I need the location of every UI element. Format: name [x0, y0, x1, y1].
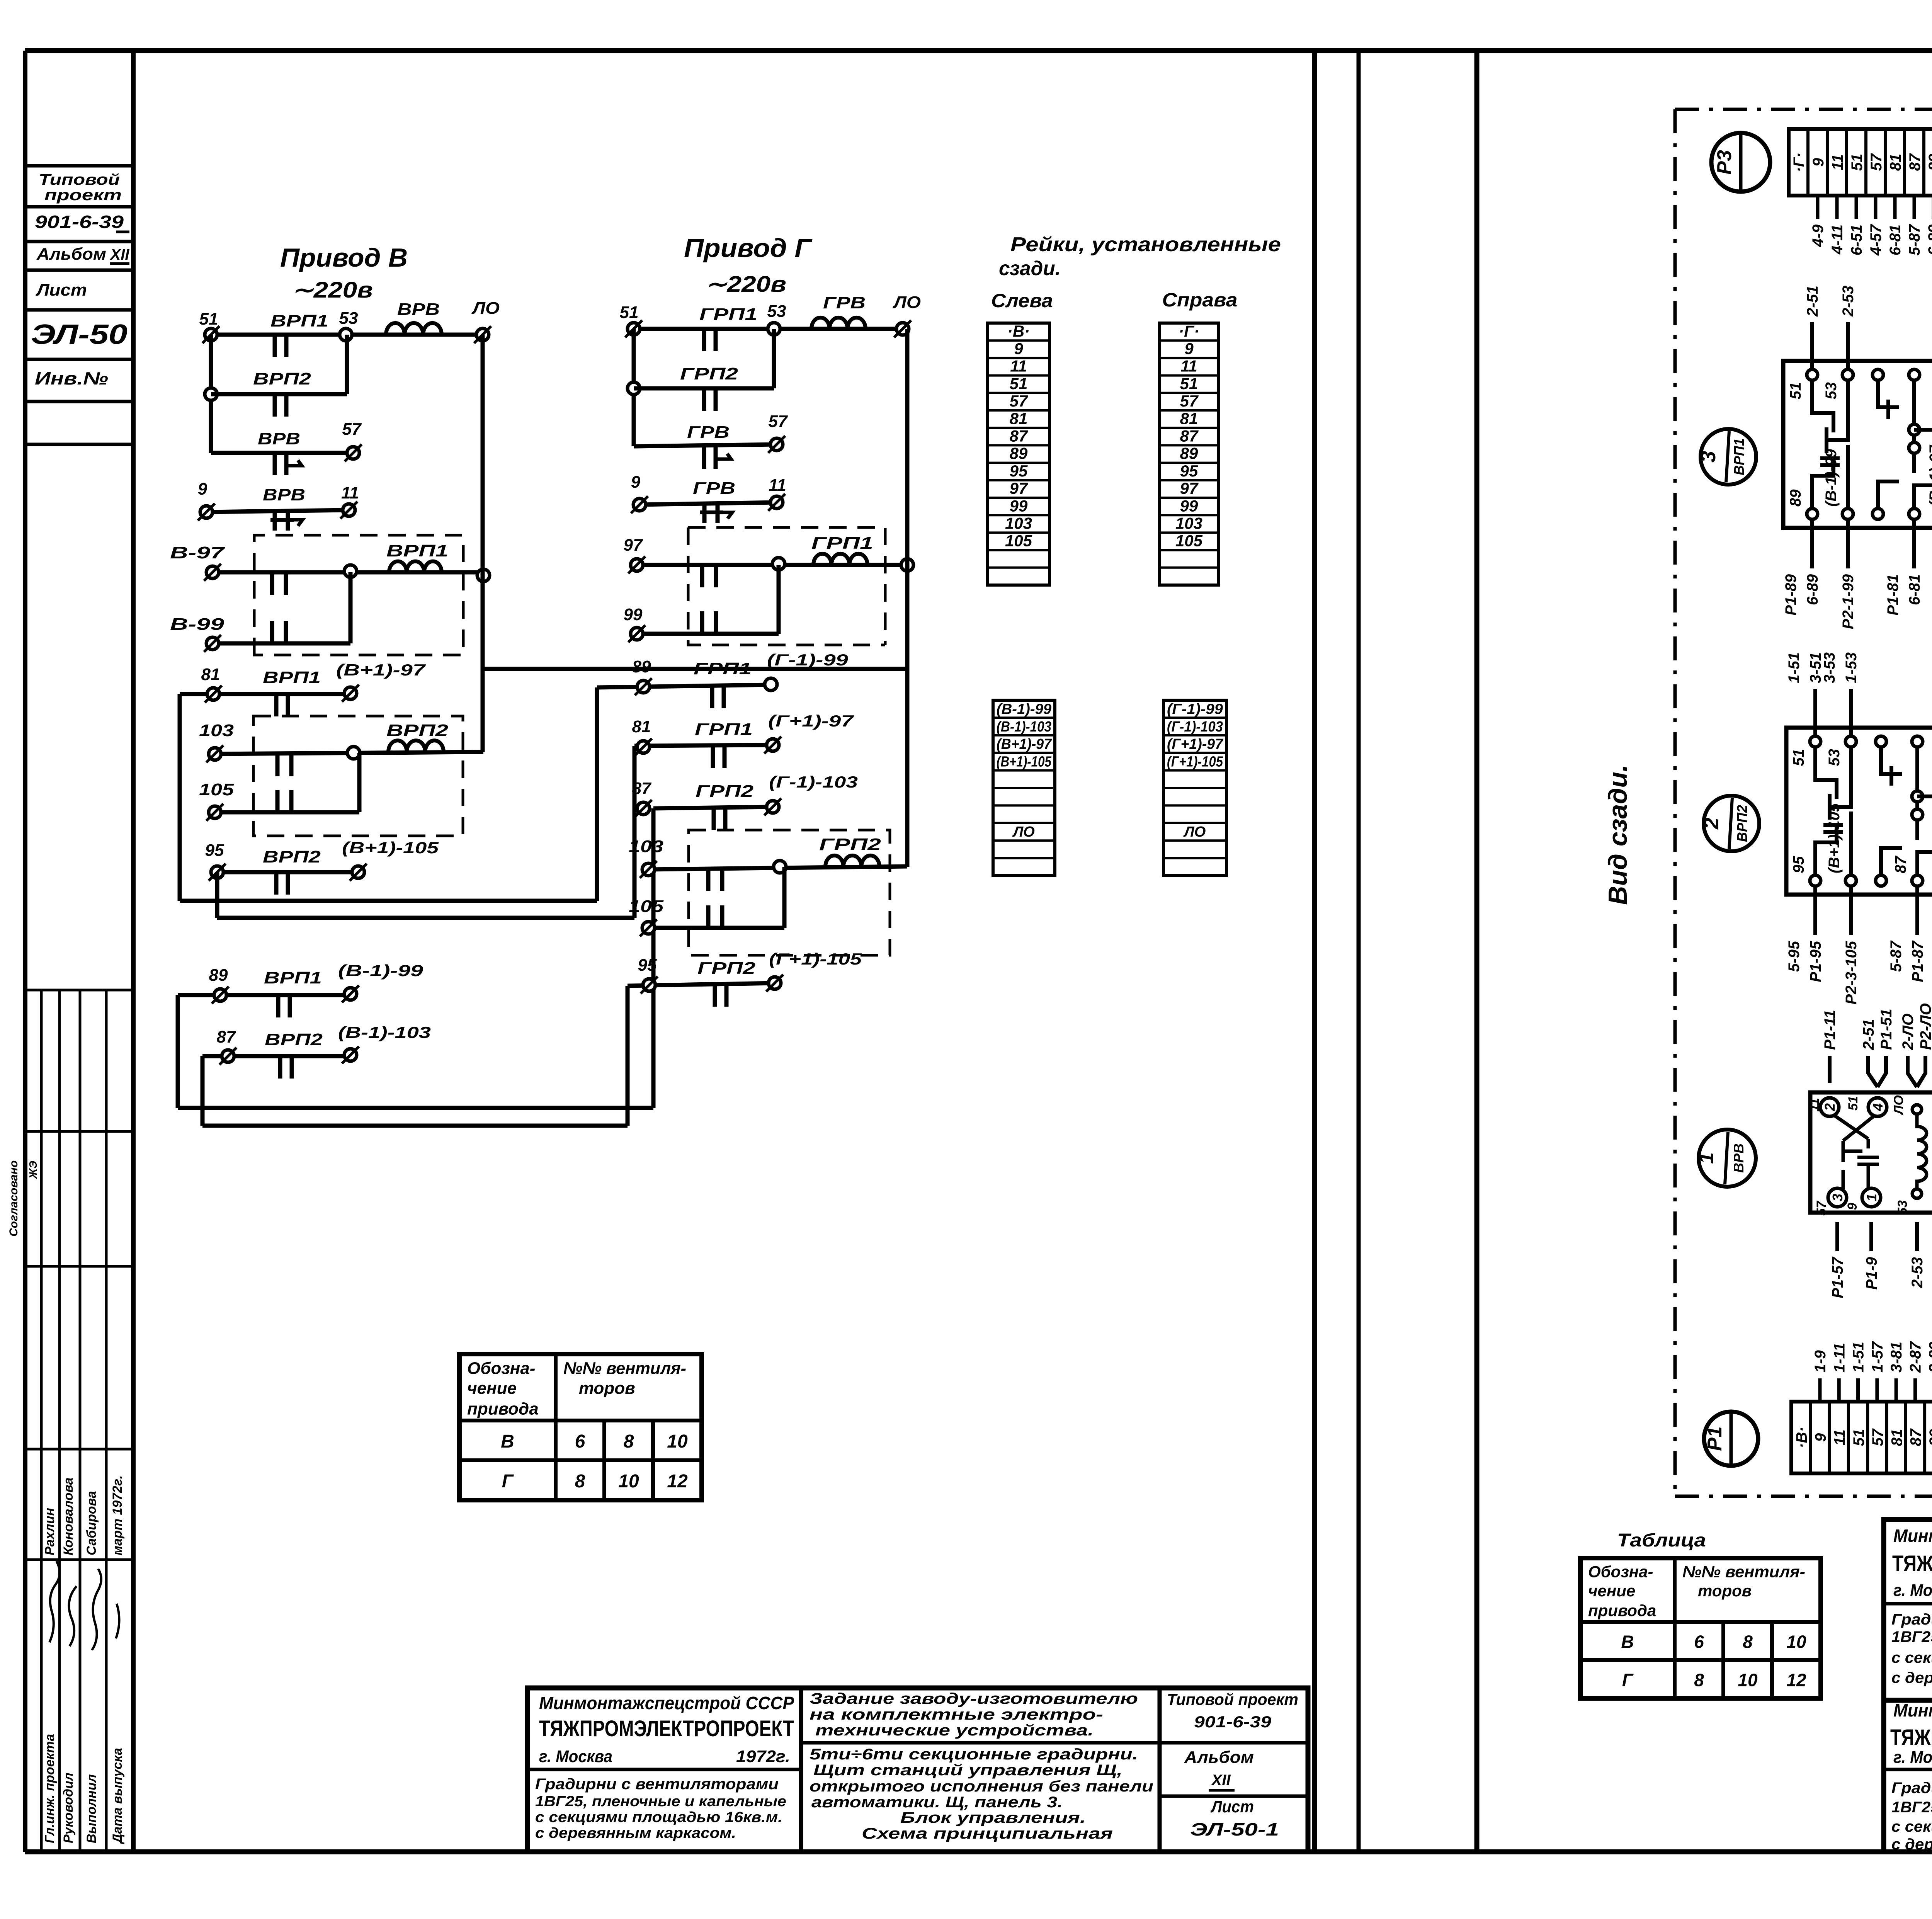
- svg-text:4-11: 4-11: [1829, 225, 1846, 255]
- svg-text:57: 57: [1869, 1428, 1886, 1446]
- svg-text:89: 89: [1010, 444, 1028, 463]
- svg-text:11: 11: [1010, 357, 1027, 375]
- svg-text:9: 9: [631, 473, 641, 492]
- svg-text:95: 95: [1790, 856, 1807, 873]
- svg-text:чение: чение: [1588, 1582, 1635, 1600]
- svg-text:1-53: 1-53: [1843, 652, 1860, 683]
- svg-text:с деревянным каркасом.: с деревянным каркасом.: [535, 1825, 736, 1841]
- svg-text:(В+1)-97: (В+1)-97: [997, 736, 1052, 752]
- svg-text:(Г-1)-99: (Г-1)-99: [1167, 701, 1223, 717]
- svg-text:89: 89: [1926, 153, 1932, 171]
- svg-text:89: 89: [1927, 1429, 1932, 1446]
- svg-text:53: 53: [1895, 1200, 1910, 1215]
- svg-text:11: 11: [769, 476, 786, 495]
- svg-text:11: 11: [341, 483, 359, 502]
- svg-text:57: 57: [1814, 1200, 1829, 1216]
- svg-text:г. Москва: г. Москва: [1893, 1748, 1932, 1767]
- svg-text:ТЯЖПРОМЭЛЕКТРОПРОЕКТ: ТЯЖПРОМЭЛЕКТРОПРОЕКТ: [1892, 1551, 1932, 1576]
- svg-text:1-51: 1-51: [1786, 652, 1803, 683]
- svg-text:105: 105: [1005, 532, 1032, 550]
- svg-text:Альбом: Альбом: [1184, 1748, 1254, 1767]
- svg-text:105: 105: [629, 897, 664, 916]
- svg-text:·Г·: ·Г·: [1179, 322, 1199, 340]
- svg-text:Привод В: Привод В: [280, 243, 408, 272]
- svg-text:Справа: Справа: [1162, 289, 1238, 311]
- svg-text:10: 10: [618, 1471, 639, 1492]
- svg-text:6-89: 6-89: [1925, 224, 1932, 255]
- svg-text:ТЯЖПРОМЭЛЕКТРОПРОЕКТ: ТЯЖПРОМЭЛЕКТРОПРОЕКТ: [539, 1716, 794, 1741]
- svg-text:Согласовано: Согласовано: [7, 1160, 20, 1237]
- svg-text:9: 9: [1184, 339, 1194, 357]
- svg-text:53: 53: [1823, 382, 1840, 400]
- svg-text:2-87: 2-87: [1907, 1341, 1924, 1373]
- svg-text:Минмонтажспецстрой СССР: Минмонтажспецстрой СССР: [1893, 1526, 1932, 1546]
- svg-text:3-89: 3-89: [1926, 1341, 1932, 1373]
- svg-text:(В-1)-103: (В-1)-103: [1930, 807, 1932, 873]
- svg-text:привода: привода: [467, 1400, 539, 1419]
- svg-text:автоматики. Щ, панель 3.: автоматики. Щ, панель 3.: [811, 1794, 1063, 1811]
- svg-text:Р1-81: Р1-81: [1884, 574, 1901, 616]
- svg-text:1ВГ25, пленочные и капельные: 1ВГ25, пленочные и капельные: [535, 1793, 786, 1810]
- svg-text:ЛО: ЛО: [1183, 824, 1206, 840]
- svg-text:81: 81: [201, 665, 220, 684]
- svg-text:ВРВ: ВРВ: [1731, 1143, 1747, 1173]
- svg-text:ГРП1: ГРП1: [694, 659, 752, 678]
- svg-text:99: 99: [1010, 497, 1028, 515]
- svg-text:Щит станций управления Щ,: Щит станций управления Щ,: [813, 1762, 1122, 1779]
- svg-text:г. Москва: г. Москва: [539, 1747, 612, 1766]
- svg-text:Р1-57: Р1-57: [1829, 1256, 1846, 1298]
- svg-text:87: 87: [1908, 1428, 1925, 1446]
- svg-text:(Г+1)-97: (Г+1)-97: [768, 712, 854, 730]
- svg-text:11: 11: [1831, 1429, 1848, 1446]
- svg-text:57: 57: [1868, 153, 1885, 171]
- svg-text:В: В: [501, 1431, 514, 1452]
- svg-text:Сабирова: Сабирова: [84, 1491, 99, 1555]
- svg-text:Р3: Р3: [1713, 150, 1736, 175]
- svg-text:6-51: 6-51: [1848, 225, 1865, 255]
- svg-text:Блок управления.: Блок управления.: [900, 1809, 1086, 1826]
- svg-text:открытого исполнения без панел: открытого исполнения без панели: [810, 1778, 1153, 1795]
- svg-text:Слева: Слева: [991, 290, 1053, 311]
- svg-text:Выполнил: Выполнил: [84, 1774, 99, 1843]
- svg-text:Обозна-: Обозна-: [467, 1359, 536, 1378]
- svg-text:57: 57: [1010, 392, 1028, 410]
- svg-text:8: 8: [1743, 1631, 1753, 1652]
- svg-text:ВРП2: ВРП2: [253, 369, 311, 388]
- svg-text:ГРП2: ГРП2: [696, 782, 754, 801]
- svg-text:97: 97: [1010, 479, 1028, 497]
- svg-text:март 1972г.: март 1972г.: [110, 1475, 125, 1555]
- svg-text:53: 53: [1826, 749, 1843, 766]
- svg-text:Дата выпуска: Дата выпуска: [110, 1748, 125, 1844]
- svg-text:ВРВ: ВРВ: [258, 429, 300, 448]
- svg-text:Гл.инж. проекта: Гл.инж. проекта: [43, 1734, 57, 1843]
- svg-text:ГРП2: ГРП2: [680, 364, 738, 383]
- svg-text:ГРП1: ГРП1: [695, 720, 753, 739]
- svg-text:103: 103: [1175, 514, 1202, 532]
- svg-text:∼220в: ∼220в: [705, 272, 786, 297]
- svg-text:1-51: 1-51: [1850, 1342, 1867, 1373]
- svg-text:Привод Г: Привод Г: [684, 233, 813, 263]
- svg-text:Г: Г: [1622, 1670, 1634, 1690]
- svg-text:Градирни с вентиляторами: Градирни с вентиляторами: [1891, 1779, 1932, 1797]
- svg-text:(В+1)-105: (В+1)-105: [342, 839, 439, 857]
- svg-text:11: 11: [1829, 154, 1846, 170]
- svg-text:3: 3: [1830, 1194, 1845, 1201]
- svg-text:(Г+1)-105: (Г+1)-105: [769, 950, 862, 968]
- svg-text:4: 4: [1870, 1103, 1886, 1111]
- svg-text:проект: проект: [44, 187, 122, 204]
- svg-text:12: 12: [667, 1471, 688, 1492]
- svg-text:Р1-11: Р1-11: [1821, 1010, 1838, 1050]
- svg-text:1972г.: 1972г.: [736, 1747, 790, 1766]
- svg-text:6: 6: [575, 1431, 585, 1452]
- svg-text:87: 87: [1180, 427, 1199, 445]
- svg-text:105: 105: [199, 780, 234, 799]
- svg-text:57: 57: [1180, 392, 1199, 410]
- svg-text:ВРП1: ВРП1: [1731, 438, 1747, 475]
- svg-text:(В-1)-99: (В-1)-99: [338, 961, 423, 980]
- svg-text:№№ вентиля-: №№ вентиля-: [1682, 1563, 1805, 1581]
- svg-text:(Г-1)-103: (Г-1)-103: [1167, 719, 1223, 735]
- svg-text:1ВГ25 пленочные и капельные: 1ВГ25 пленочные и капельные: [1891, 1628, 1932, 1645]
- svg-text:Рахлин: Рахлин: [43, 1508, 57, 1555]
- svg-text:57: 57: [342, 420, 362, 439]
- svg-text:9: 9: [198, 480, 207, 498]
- svg-text:89: 89: [1787, 489, 1804, 507]
- svg-text:ЭЛ-50: ЭЛ-50: [31, 319, 128, 350]
- svg-text:87: 87: [1906, 153, 1923, 171]
- svg-text:11: 11: [1180, 357, 1197, 375]
- svg-text:ГРП2: ГРП2: [697, 959, 756, 978]
- svg-text:103: 103: [1005, 514, 1032, 532]
- svg-text:2-53: 2-53: [1909, 1257, 1926, 1288]
- svg-text:95: 95: [205, 841, 224, 860]
- svg-text:ЛО: ЛО: [1012, 824, 1035, 840]
- svg-text:2-ЛО: 2-ЛО: [1900, 1014, 1917, 1050]
- svg-text:чение: чение: [467, 1379, 517, 1398]
- svg-text:Р1-9: Р1-9: [1863, 1257, 1880, 1290]
- svg-text:5-95: 5-95: [1786, 941, 1803, 972]
- svg-text:103: 103: [629, 837, 663, 856]
- svg-text:2-51: 2-51: [1804, 286, 1821, 317]
- svg-text:Минмонтажспецстрой СССР: Минмонтажспецстрой СССР: [539, 1693, 794, 1713]
- svg-text:Лист: Лист: [1210, 1797, 1254, 1816]
- svg-text:81: 81: [1888, 1429, 1905, 1446]
- svg-text:сзади.: сзади.: [999, 257, 1061, 280]
- svg-text:г. Москва: г. Москва: [1893, 1581, 1932, 1600]
- svg-text:ГРП1: ГРП1: [699, 305, 757, 324]
- svg-text:ЛО: ЛО: [471, 299, 500, 318]
- svg-text:ВРВ: ВРВ: [263, 485, 305, 504]
- svg-text:89: 89: [209, 966, 228, 985]
- svg-text:Градирни с вентиляторами: Градирни с вентиляторами: [1891, 1611, 1932, 1628]
- svg-text:В-99: В-99: [170, 615, 224, 634]
- svg-text:·В·: ·В·: [1793, 1427, 1810, 1448]
- svg-text:Г: Г: [502, 1471, 514, 1492]
- svg-text:Коновалова: Коновалова: [61, 1477, 76, 1555]
- svg-text:с деревянным каркасом.: с деревянным каркасом.: [1891, 1836, 1932, 1853]
- svg-text:Руководил: Руководил: [61, 1773, 76, 1843]
- svg-text:Типовой проект: Типовой проект: [1167, 1690, 1298, 1708]
- svg-text:95: 95: [638, 956, 657, 975]
- svg-text:ВРП1: ВРП1: [270, 311, 328, 330]
- svg-text:ЭЛ-50-1: ЭЛ-50-1: [1190, 1819, 1279, 1839]
- svg-text:Р1-89: Р1-89: [1782, 574, 1799, 615]
- svg-text:103: 103: [199, 721, 234, 740]
- svg-text:·Г·: ·Г·: [1791, 152, 1808, 172]
- svg-text:87: 87: [217, 1028, 236, 1046]
- svg-text:XII: XII: [110, 246, 130, 263]
- svg-text:57: 57: [769, 412, 788, 431]
- svg-text:Лист: Лист: [36, 281, 87, 299]
- svg-text:ТЯЖПРОМЭЛЕКТРОПРОЕКТ: ТЯЖПРОМЭЛЕКТРОПРОЕКТ: [1890, 1725, 1932, 1750]
- svg-text:51: 51: [1850, 1429, 1867, 1446]
- svg-text:12: 12: [1786, 1670, 1806, 1690]
- svg-text:95: 95: [1010, 462, 1028, 480]
- svg-text:1-57: 1-57: [1869, 1341, 1886, 1373]
- svg-text:1ВГ25 пленочные и капельные: 1ВГ25 пленочные и капельные: [1891, 1799, 1932, 1816]
- svg-text:на комплектные электро-: на комплектные электро-: [810, 1706, 1103, 1723]
- svg-text:53: 53: [339, 309, 358, 328]
- svg-text:ГРВ: ГРВ: [823, 293, 866, 312]
- svg-text:87: 87: [1010, 427, 1028, 445]
- svg-text:Задание заводу-изготовителю: Задание заводу-изготовителю: [810, 1690, 1138, 1707]
- svg-text:торов: торов: [579, 1379, 635, 1398]
- svg-text:9: 9: [1014, 339, 1023, 357]
- svg-text:87: 87: [1892, 856, 1909, 873]
- svg-text:с деревянным каркасом.: с деревянным каркасом.: [1891, 1669, 1932, 1686]
- svg-text:Вид сзади.: Вид сзади.: [1603, 764, 1633, 905]
- svg-text:11: 11: [1807, 1098, 1822, 1111]
- svg-text:ГРП1: ГРП1: [811, 534, 873, 553]
- svg-text:81: 81: [1180, 409, 1198, 427]
- svg-text:ВРП2: ВРП2: [1734, 805, 1750, 842]
- svg-text:(Г+1)-105: (Г+1)-105: [1167, 754, 1223, 770]
- svg-text:Типовой: Типовой: [39, 171, 120, 188]
- svg-text:4-57: 4-57: [1867, 224, 1884, 256]
- svg-text:89: 89: [1180, 444, 1198, 463]
- svg-text:ГРП2: ГРП2: [819, 835, 881, 854]
- svg-text:Градирни с вентиляторами: Градирни с вентиляторами: [535, 1776, 779, 1793]
- svg-text:(Г-1)-99: (Г-1)-99: [767, 651, 849, 669]
- svg-text:Обозна-: Обозна-: [1588, 1563, 1653, 1581]
- svg-text:Рейки, установленные: Рейки, установленные: [1010, 233, 1281, 256]
- svg-text:1-11: 1-11: [1831, 1343, 1848, 1373]
- svg-text:81: 81: [1887, 154, 1904, 171]
- svg-text:81: 81: [632, 717, 651, 736]
- svg-text:89: 89: [632, 657, 651, 676]
- svg-text:ЖЭ: ЖЭ: [27, 1161, 39, 1179]
- svg-text:97: 97: [1180, 479, 1199, 497]
- svg-text:Таблица: Таблица: [1617, 1530, 1706, 1551]
- svg-text:Альбом: Альбом: [36, 245, 106, 264]
- svg-text:∼220в: ∼220в: [292, 277, 373, 303]
- svg-text:(В+1)-105: (В+1)-105: [997, 754, 1052, 770]
- svg-text:Инв.№: Инв.№: [35, 368, 108, 388]
- svg-text:99: 99: [1180, 497, 1198, 515]
- svg-text:6-81: 6-81: [1906, 574, 1923, 605]
- svg-text:Р1: Р1: [1704, 1426, 1726, 1451]
- svg-text:5-87: 5-87: [1906, 224, 1923, 255]
- svg-text:В: В: [1621, 1631, 1634, 1652]
- svg-text:ЛО: ЛО: [893, 293, 921, 312]
- svg-text:5ти÷6ти секционные градирни.: 5ти÷6ти секционные градирни.: [810, 1746, 1138, 1763]
- svg-text:(Г+1)-97: (Г+1)-97: [1167, 736, 1224, 752]
- svg-text:10: 10: [1786, 1631, 1806, 1652]
- svg-text:95: 95: [1180, 462, 1198, 480]
- svg-text:Р1-51: Р1-51: [1878, 1009, 1895, 1050]
- svg-text:(В+1)-97: (В+1)-97: [1927, 444, 1932, 507]
- svg-text:(В-1)-103: (В-1)-103: [338, 1023, 431, 1041]
- svg-text:(В-1)-99: (В-1)-99: [997, 701, 1051, 717]
- svg-text:51: 51: [1849, 154, 1866, 171]
- svg-text:с секциями площадью 16кв.м.: с секциями площадью 16кв.м.: [1891, 1818, 1932, 1835]
- svg-text:105: 105: [1175, 532, 1203, 550]
- svg-text:с секциями площадью 16кв.м.: с секциями площадью 16кв.м.: [1891, 1649, 1932, 1666]
- svg-text:(В+1)-97: (В+1)-97: [336, 661, 426, 679]
- svg-text:ВРП1: ВРП1: [386, 541, 448, 560]
- svg-text:8: 8: [624, 1431, 634, 1452]
- svg-text:ГРВ: ГРВ: [693, 479, 735, 498]
- svg-text:2-53: 2-53: [1840, 286, 1857, 317]
- svg-text:с секциями площадью 16кв.м.: с секциями площадью 16кв.м.: [535, 1809, 782, 1825]
- svg-text:6-81: 6-81: [1887, 225, 1904, 255]
- svg-text:ВРП1: ВРП1: [264, 968, 322, 987]
- svg-text:97: 97: [624, 536, 643, 555]
- svg-text:Р2-3-105: Р2-3-105: [1843, 941, 1860, 1004]
- svg-text:ВРП2: ВРП2: [265, 1030, 323, 1049]
- svg-text:51: 51: [620, 303, 639, 322]
- svg-text:торов: торов: [1698, 1582, 1752, 1600]
- svg-text:51: 51: [199, 310, 218, 328]
- svg-text:ВРП2: ВРП2: [263, 847, 321, 866]
- svg-text:технические устройства.: технические устройства.: [815, 1722, 1094, 1739]
- svg-text:10: 10: [667, 1431, 688, 1452]
- svg-text:1: 1: [1864, 1194, 1879, 1201]
- svg-text:9: 9: [1810, 158, 1827, 167]
- svg-text:3-81: 3-81: [1888, 1342, 1905, 1373]
- svg-text:Р2-ЛО: Р2-ЛО: [1917, 1003, 1932, 1050]
- svg-text:2: 2: [1700, 818, 1723, 830]
- svg-text:99: 99: [624, 605, 643, 624]
- svg-text:(Г-1)-103: (Г-1)-103: [769, 773, 858, 791]
- svg-text:2-51: 2-51: [1860, 1019, 1877, 1050]
- svg-text:51: 51: [1790, 749, 1807, 766]
- svg-text:ВРП1: ВРП1: [263, 668, 321, 687]
- svg-text:Р1-95: Р1-95: [1807, 941, 1824, 982]
- svg-text:Р2-1-99: Р2-1-99: [1840, 574, 1857, 629]
- svg-text:привода: привода: [1588, 1601, 1656, 1620]
- svg-text:53: 53: [767, 302, 786, 321]
- svg-text:8: 8: [1694, 1670, 1704, 1690]
- svg-text:·В·: ·В·: [1007, 322, 1030, 340]
- svg-text:87: 87: [632, 779, 652, 798]
- svg-text:901-6-39: 901-6-39: [35, 212, 124, 232]
- svg-text:ВРП2: ВРП2: [386, 721, 449, 740]
- svg-text:9: 9: [1845, 1203, 1860, 1210]
- svg-text:51: 51: [1010, 374, 1028, 393]
- svg-text:51: 51: [1787, 382, 1804, 400]
- svg-text:81: 81: [1010, 409, 1028, 427]
- svg-text:8: 8: [575, 1471, 585, 1492]
- svg-text:(В-1)-103: (В-1)-103: [997, 719, 1051, 735]
- svg-text:2: 2: [1822, 1103, 1838, 1111]
- svg-text:ВРВ: ВРВ: [397, 300, 440, 319]
- svg-text:1: 1: [1695, 1152, 1718, 1164]
- svg-text:51: 51: [1180, 374, 1198, 393]
- svg-text:10: 10: [1738, 1670, 1758, 1690]
- svg-text:Минмонтажспецстрой СССР: Минмонтажспецстрой СССР: [1893, 1700, 1932, 1720]
- svg-text:9: 9: [1812, 1433, 1829, 1442]
- svg-text:901-6-39: 901-6-39: [1194, 1713, 1272, 1731]
- svg-text:В-97: В-97: [170, 543, 226, 562]
- svg-text:Схема принципиальная: Схема принципиальная: [862, 1825, 1113, 1842]
- svg-text:XII: XII: [1211, 1772, 1231, 1789]
- svg-text:4-9: 4-9: [1810, 224, 1827, 247]
- svg-text:1-9: 1-9: [1812, 1350, 1829, 1373]
- svg-text:6-89: 6-89: [1804, 574, 1821, 605]
- svg-text:6: 6: [1694, 1631, 1704, 1652]
- svg-text:Р1-87: Р1-87: [1909, 940, 1926, 982]
- svg-text:ЛО: ЛО: [1891, 1095, 1906, 1116]
- svg-text:№№ вентиля-: №№ вентиля-: [563, 1359, 686, 1378]
- svg-text:ГРВ: ГРВ: [687, 423, 730, 442]
- svg-text:5-87: 5-87: [1888, 940, 1905, 972]
- svg-text:51: 51: [1846, 1096, 1861, 1111]
- svg-text:3-53: 3-53: [1821, 652, 1838, 683]
- svg-text:3: 3: [1697, 451, 1720, 463]
